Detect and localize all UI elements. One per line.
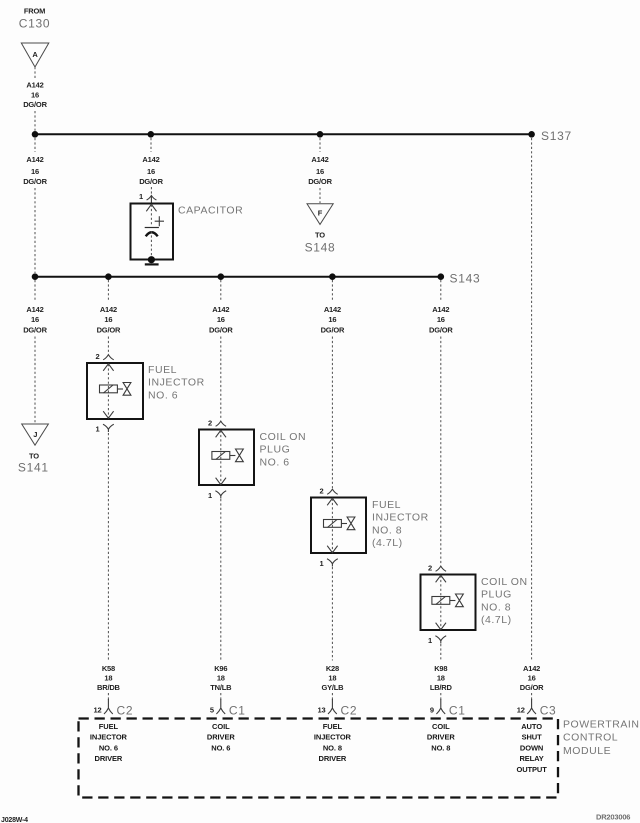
junction dot bus2 colA — [32, 273, 39, 280]
svg-text:F: F — [318, 208, 323, 217]
junction dot bus1 colC — [317, 131, 324, 138]
svg-text:K28: K28 — [326, 664, 339, 673]
svg-text:1: 1 — [208, 491, 212, 500]
svg-text:DG/OR: DG/OR — [308, 177, 332, 186]
junction dot bus2 col2 — [218, 273, 225, 280]
svg-text:18: 18 — [437, 674, 445, 683]
wire colA below bus2 — [34, 280, 36, 301]
svg-text:FUEL: FUEL — [323, 722, 343, 731]
svg-text:TO: TO — [315, 231, 325, 240]
coil6 internal bottom arrow — [216, 478, 226, 485]
svg-text:TN/LB: TN/LB — [210, 683, 232, 692]
pin 9 C1 (PCM coil driver no.8) — [430, 693, 466, 718]
svg-text:DRIVER: DRIVER — [427, 733, 455, 742]
svg-text:A142: A142 — [142, 155, 159, 164]
svg-text:DG/OR: DG/OR — [209, 326, 233, 335]
svg-text:DG/OR: DG/OR — [321, 326, 345, 335]
svg-text:NO. 6: NO. 6 — [99, 743, 118, 752]
svg-text:SHUT: SHUT — [522, 733, 543, 742]
pin 1 fuel injector no.6 — [96, 424, 114, 433]
svg-text:DG/OR: DG/OR — [429, 326, 453, 335]
coil6 internal top arrow — [216, 430, 226, 437]
svg-text:S137: S137 — [541, 129, 572, 143]
svg-text:K58: K58 — [102, 664, 115, 673]
pin 12 C3 (PCM auto shut down relay output) — [517, 693, 557, 718]
svg-text:C130: C130 — [19, 17, 51, 31]
svg-text:COIL ON: COIL ON — [481, 576, 528, 588]
svg-text:2: 2 — [96, 352, 100, 361]
off-page connector F (to S148) — [307, 204, 333, 225]
svg-text:NO. 6: NO. 6 — [211, 743, 230, 752]
svg-text:A142: A142 — [26, 81, 43, 90]
svg-text:5: 5 — [210, 706, 214, 715]
svg-text:DOWN: DOWN — [520, 743, 543, 752]
wire colA bus1 to bus2 — [34, 138, 36, 152]
svg-text:(4.7L): (4.7L) — [481, 614, 512, 626]
off-page connector J (to S141) — [22, 424, 49, 445]
fuel injector no.6 box — [87, 363, 143, 419]
svg-text:NO. 8: NO. 8 — [372, 524, 402, 536]
capacitor polarity + sign — [155, 216, 164, 226]
node FROM C130 label — [19, 7, 51, 31]
wire label A142 16 DG/OR (col5) — [520, 664, 544, 692]
svg-text:S141: S141 — [18, 461, 49, 475]
label FUEL INJECTOR NO. 6 — [148, 364, 205, 402]
svg-text:16: 16 — [437, 315, 445, 324]
powertrain control module box — [79, 719, 559, 798]
wire — [319, 188, 321, 203]
svg-text:DG/OR: DG/OR — [23, 100, 47, 109]
wire label K98 18 LB/RD — [430, 664, 453, 692]
svg-text:CONTROL: CONTROL — [563, 732, 618, 744]
capacitor bottom plate — [146, 232, 158, 236]
svg-text:9: 9 — [430, 706, 434, 715]
pin 2 fuel injector no.6 — [96, 352, 114, 361]
pin 1 coil on plug no.6 — [208, 491, 226, 500]
svg-text:16: 16 — [31, 315, 39, 324]
svg-text:J: J — [33, 430, 37, 439]
svg-text:2: 2 — [428, 564, 432, 573]
node TO S148 label — [305, 231, 336, 255]
svg-text:CAPACITOR: CAPACITOR — [178, 204, 243, 216]
wire col1 to PCM — [107, 433, 109, 661]
wire label A142 16 DG/OR (col1) — [97, 305, 121, 335]
svg-text:MODULE: MODULE — [563, 745, 611, 757]
wire — [34, 111, 36, 131]
svg-text:1: 1 — [139, 192, 143, 201]
injector8 internal wire — [331, 499, 333, 553]
wire label A142 16 DG/OR (col2) — [209, 305, 233, 335]
svg-text:POWERTRAIN: POWERTRAIN — [563, 719, 639, 731]
svg-text:FROM: FROM — [24, 7, 45, 16]
PCM text fuel injector no.8 driver — [314, 722, 352, 763]
svg-text:NO. 8: NO. 8 — [481, 601, 511, 613]
fuel injector no.8 box — [311, 498, 366, 554]
wire colA from connector A to S137 bus — [34, 67, 36, 78]
pin 5 C1 (PCM coil driver no.6) — [210, 693, 246, 718]
capacitor internal wire lower — [150, 231, 152, 258]
label COIL ON PLUG NO. 6 — [260, 431, 307, 469]
svg-text:NO. 8: NO. 8 — [431, 743, 450, 752]
wire colC from bus1 — [319, 138, 321, 152]
svg-text:AUTO: AUTO — [521, 722, 542, 731]
svg-text:NO. 6: NO. 6 — [148, 389, 178, 401]
wire label A142 16 DG/OR (colA mid) — [23, 155, 47, 186]
svg-text:18: 18 — [104, 674, 112, 683]
svg-text:COIL: COIL — [212, 722, 230, 731]
svg-text:A142: A142 — [100, 305, 117, 314]
svg-text:2: 2 — [320, 487, 324, 496]
wire label A142 16 DG/OR (col3) — [321, 305, 345, 335]
svg-text:A: A — [32, 50, 38, 59]
svg-text:LB/RD: LB/RD — [430, 683, 453, 692]
svg-text:C2: C2 — [341, 704, 358, 718]
coil8 internal top arrow — [436, 575, 446, 582]
svg-text:NO. 8: NO. 8 — [323, 743, 342, 752]
junction dot bus1 colA — [32, 131, 39, 138]
PCM text coil driver no.8 — [427, 722, 455, 752]
label FUEL INJECTOR NO. 8 (4.7L) — [372, 499, 429, 549]
svg-text:FUEL: FUEL — [99, 722, 119, 731]
capacitor top plate — [145, 227, 159, 229]
svg-text:16: 16 — [316, 167, 324, 176]
junction dot bus1 capacitor column — [148, 131, 155, 138]
label COIL ON PLUG NO. 8 (4.7L) — [481, 576, 528, 626]
svg-text:13: 13 — [318, 706, 326, 715]
node TO S141 label — [18, 451, 49, 474]
wire label A142 16 DG/OR (capacitor col) — [139, 155, 163, 186]
svg-text:C1: C1 — [229, 704, 246, 718]
wire capacitor column from bus1 — [150, 138, 152, 152]
svg-text:A142: A142 — [311, 155, 328, 164]
svg-text:16: 16 — [31, 167, 39, 176]
injector6 internal bottom arrow — [103, 411, 113, 418]
wire — [150, 187, 152, 195]
svg-text:A142: A142 — [26, 155, 43, 164]
off-page connector A (from C130) — [21, 43, 49, 67]
svg-text:A142: A142 — [432, 305, 449, 314]
svg-text:DG/OR: DG/OR — [139, 177, 163, 186]
pin 13 C2 (PCM fuel injector no.8 driver) — [318, 693, 358, 718]
junction dot bus2 col3 — [329, 273, 336, 280]
wire col2 below bus2 — [220, 280, 222, 301]
pin 12 C2 (PCM fuel injector no.6 driver) — [94, 693, 134, 718]
pin 2 coil on plug no.8 — [428, 564, 446, 573]
pin 2 coil on plug no.6 — [208, 419, 226, 428]
coil on plug no.8 box — [421, 575, 476, 631]
coil6 coil element — [212, 449, 243, 462]
svg-text:12: 12 — [94, 706, 102, 715]
svg-text:PLUG: PLUG — [481, 589, 512, 601]
wire — [331, 337, 333, 489]
wire col2 to PCM — [220, 499, 222, 661]
svg-text:16: 16 — [147, 167, 155, 176]
svg-text:16: 16 — [104, 315, 112, 324]
svg-text:16: 16 — [528, 674, 536, 683]
splice bus S143 — [35, 276, 441, 278]
wire — [107, 337, 109, 355]
wire label K96 18 TN/LB — [210, 664, 232, 692]
wire col3 below bus2 — [331, 280, 333, 301]
svg-text:(4.7L): (4.7L) — [372, 537, 403, 549]
svg-text:DR203006: DR203006 — [596, 813, 630, 822]
coil8 coil element — [432, 594, 463, 607]
svg-text:INJECTOR: INJECTOR — [314, 733, 352, 742]
svg-text:TO: TO — [29, 451, 39, 460]
svg-text:18: 18 — [217, 674, 225, 683]
svg-text:A142: A142 — [523, 664, 540, 673]
junction dot splice S137 — [528, 131, 535, 138]
svg-text:DRIVER: DRIVER — [207, 733, 235, 742]
svg-text:18: 18 — [328, 674, 336, 683]
svg-text:GY/LB: GY/LB — [321, 683, 344, 692]
svg-text:FUEL: FUEL — [148, 364, 177, 376]
svg-text:DRIVER: DRIVER — [95, 754, 123, 763]
svg-text:RELAY: RELAY — [519, 754, 543, 763]
injector6 coil element — [100, 383, 131, 396]
junction dot splice S143 — [438, 273, 445, 280]
injector8 internal top arrow — [327, 498, 337, 505]
junction dot bus2 col1 — [105, 273, 112, 280]
svg-text:COIL ON: COIL ON — [260, 431, 307, 443]
svg-text:COIL: COIL — [432, 722, 450, 731]
svg-text:OUTPUT: OUTPUT — [516, 765, 547, 774]
wire — [440, 337, 442, 566]
PCM text coil driver no.6 — [207, 722, 235, 752]
svg-text:DRIVER: DRIVER — [319, 754, 347, 763]
svg-text:DG/OR: DG/OR — [23, 326, 47, 335]
wire label A142 16 DG/OR (colA top) — [23, 81, 47, 110]
wire col3 to PCM — [331, 567, 333, 661]
svg-text:NO. 6: NO. 6 — [260, 456, 290, 468]
wire — [34, 337, 36, 424]
svg-text:C3: C3 — [540, 704, 557, 718]
svg-text:FUEL: FUEL — [372, 499, 401, 511]
svg-text:A142: A142 — [212, 305, 229, 314]
pin 1 fuel injector no.8 — [320, 559, 338, 568]
wire col5 from S137 to PCM — [531, 138, 533, 661]
wire label A142 16 DG/OR (colC) — [308, 155, 332, 186]
ground tick below capacitor — [145, 263, 159, 265]
capacitor internal wire — [150, 205, 152, 227]
svg-text:S143: S143 — [450, 271, 481, 285]
injector8 coil element — [324, 517, 355, 530]
injector6 internal wire — [107, 364, 109, 418]
PCM text fuel injector no.6 driver — [90, 722, 128, 763]
wire — [34, 188, 36, 273]
wire col4 to PCM — [440, 644, 442, 661]
svg-text:INJECTOR: INJECTOR — [148, 377, 205, 389]
svg-text:DG/OR: DG/OR — [97, 326, 121, 335]
wire col1 below bus2 — [107, 280, 109, 301]
wire label K58 18 BR/DB — [97, 664, 121, 692]
coil8 internal wire — [440, 576, 442, 630]
svg-text:DG/OR: DG/OR — [520, 683, 544, 692]
svg-text:PLUG: PLUG — [260, 444, 291, 456]
svg-text:K98: K98 — [434, 664, 447, 673]
pin 2 fuel injector no.8 — [320, 487, 338, 496]
svg-text:J028W-4: J028W-4 — [1, 817, 28, 823]
svg-text:1: 1 — [428, 636, 432, 645]
wire label A142 16 DG/OR (col4) — [429, 305, 453, 335]
svg-text:16: 16 — [31, 91, 39, 100]
wire — [220, 337, 222, 421]
svg-text:C1: C1 — [449, 704, 466, 718]
svg-text:16: 16 — [217, 315, 225, 324]
coil8 internal bottom arrow — [436, 623, 446, 630]
junction dot capacitor to case — [148, 256, 155, 263]
svg-text:16: 16 — [328, 315, 336, 324]
pin 1 coil on plug no.8 — [428, 636, 446, 645]
svg-text:BR/DB: BR/DB — [97, 683, 121, 692]
coil on plug no.6 box — [199, 430, 254, 486]
capacitor internal top arrow — [146, 204, 156, 211]
wire col4 below bus2 — [440, 280, 442, 301]
capacitor C box — [131, 204, 174, 260]
coil6 internal wire — [220, 431, 222, 485]
svg-text:A142: A142 — [324, 305, 341, 314]
svg-text:1: 1 — [96, 425, 100, 434]
svg-text:S148: S148 — [305, 241, 336, 255]
svg-text:A142: A142 — [26, 305, 43, 314]
PCM text auto shut down relay output — [516, 722, 547, 774]
wire label K28 18 GY/LB — [321, 664, 344, 692]
injector8 internal bottom arrow — [327, 546, 337, 553]
svg-text:K96: K96 — [214, 664, 227, 673]
svg-text:2: 2 — [208, 419, 212, 428]
pin 1 capacitor — [139, 192, 156, 203]
svg-text:DG/OR: DG/OR — [23, 177, 47, 186]
label POWERTRAIN CONTROL MODULE — [563, 719, 639, 758]
svg-text:INJECTOR: INJECTOR — [372, 512, 429, 524]
svg-text:1: 1 — [320, 559, 324, 568]
wire label A142 16 DG/OR (colA bottom) — [23, 305, 47, 335]
svg-text:INJECTOR: INJECTOR — [90, 733, 128, 742]
injector6 internal top arrow — [103, 364, 113, 371]
svg-text:12: 12 — [517, 706, 525, 715]
svg-text:C2: C2 — [117, 704, 134, 718]
splice bus S137 — [35, 133, 532, 135]
